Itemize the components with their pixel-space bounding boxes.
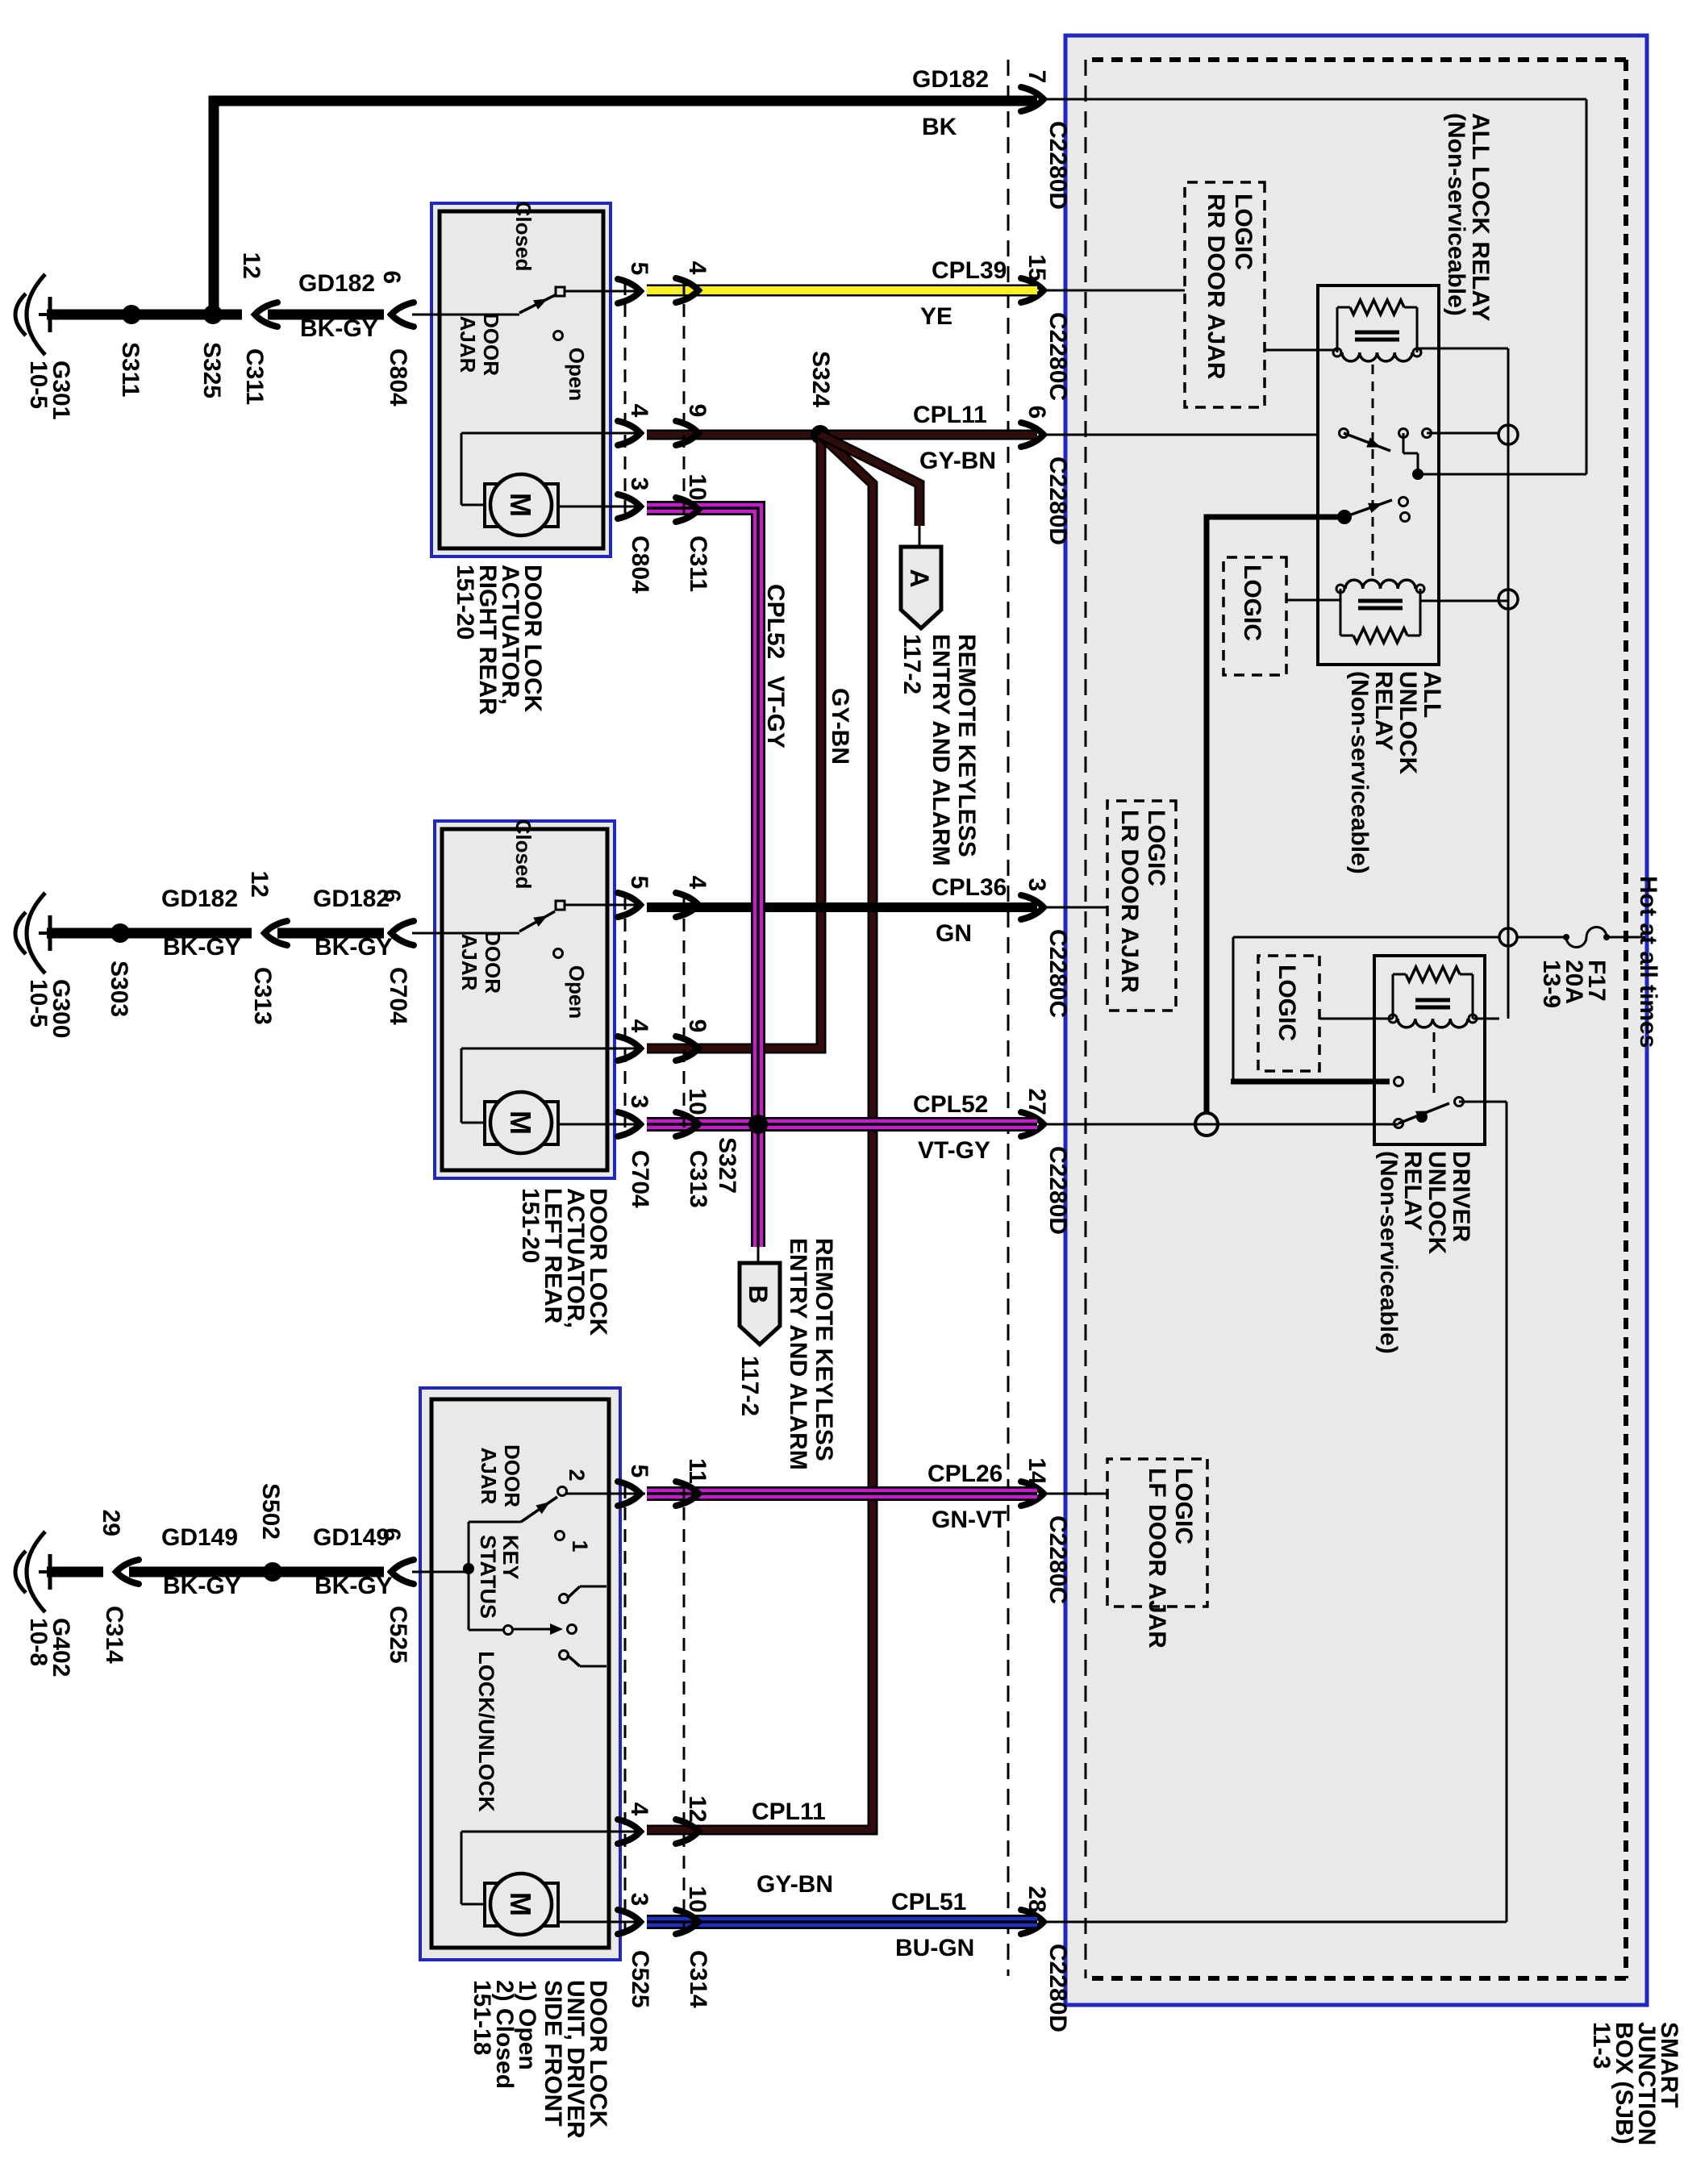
svg-text:11: 11 [684,1458,711,1484]
svg-text:M: M [504,493,537,517]
all lock relay coil [1416,307,1419,352]
svg-text:10-8: 10-8 [25,1618,52,1666]
svg-text:GY-BN: GY-BN [757,1871,833,1898]
door lock unit driver side front box [420,1388,620,1960]
pin 27 C2280D [1021,1112,1044,1136]
svg-text:10-5: 10-5 [25,979,52,1027]
svg-text:Open: Open [565,348,589,401]
pin 10 [676,1112,698,1136]
svg-text:7: 7 [1023,70,1050,84]
svg-text:CPL52: CPL52 [913,1091,988,1118]
splice S311 [122,305,141,324]
ground G300 [39,932,48,935]
ground G301 [39,313,48,316]
svg-text:GN-VT: GN-VT [932,1507,1007,1533]
connector dashed line C2280 [1007,60,1010,1976]
svg-text:KEY: KEY [498,1535,523,1580]
svg-text:C2280C: C2280C [1044,929,1071,1018]
svg-text:BK-GY: BK-GY [300,315,378,342]
wire relay output to GD182 [1418,473,1586,476]
connector dashed separators [624,282,627,521]
svg-text:3: 3 [1023,878,1050,892]
svg-text:151-20: 151-20 [452,565,478,640]
svg-text:CPL39: CPL39 [932,257,1007,284]
front motor M [539,1883,558,1926]
svg-text:AJAR: AJAR [456,316,480,373]
svg-text:S325: S325 [198,342,225,398]
connector C313 pin 12 [265,921,287,945]
svg-text:AJAR: AJAR [457,934,481,991]
logic box driver unlock [1258,956,1319,1071]
lock relay lower throw [1337,510,1352,524]
svg-text:6: 6 [378,270,405,284]
pin 3 [618,1910,640,1934]
svg-text:5: 5 [626,876,652,890]
svg-text:Open: Open [565,965,589,1019]
svg-text:(Non-serviceable): (Non-serviceable) [1375,1151,1402,1354]
svg-text:M: M [504,1111,537,1135]
svg-text:C704: C704 [385,967,411,1025]
splice S327 [748,1115,768,1134]
svg-text:9: 9 [684,404,711,418]
splice S324 [811,425,830,444]
wire S324 to LR [647,435,821,1048]
svg-text:C313: C313 [249,967,276,1025]
terminal circle lock [1499,425,1518,444]
svg-text:BK-GY: BK-GY [315,1573,393,1599]
wire S324 to flag A stub [820,435,919,526]
wire pin27 CPL52 interior [1044,1123,1398,1126]
ground G300 wire [277,928,384,939]
svg-text:4: 4 [684,876,711,890]
svg-text:C2280D: C2280D [1044,1146,1071,1235]
svg-text:2: 2 [565,1469,589,1481]
wire CPL51 BU-GN [647,1915,1037,1929]
smart junction box SJB [1065,35,1647,2005]
wire coil to RR logic box [1265,349,1337,352]
svg-text:A: A [905,569,934,587]
svg-text:LOGIC: LOGIC [1239,565,1265,641]
svg-text:BK: BK [922,114,957,140]
svg-text:10: 10 [684,473,711,500]
svg-text:DRIVER: DRIVER [1448,1151,1474,1243]
svg-text:LF DOOR AJAR: LF DOOR AJAR [1144,1468,1170,1648]
svg-text:C525: C525 [385,1606,411,1664]
svg-text:C525: C525 [627,1950,653,2008]
wire pin28 bus [1506,1102,1508,1922]
dashed actuation driver [1433,1032,1436,1097]
svg-text:5: 5 [626,262,652,276]
svg-text:3: 3 [626,1095,652,1109]
svg-text:BK-GY: BK-GY [163,934,241,961]
svg-text:14: 14 [1023,1457,1050,1485]
svg-text:C704: C704 [627,1150,653,1208]
pin 10 [676,498,698,522]
svg-text:REMOTE KEYLESS: REMOTE KEYLESS [811,1238,837,1461]
svg-text:3: 3 [626,1893,652,1907]
wire unlock coil to power bus [1420,600,1508,602]
key status common [469,1629,504,1632]
wire stub to flag B [751,1124,765,1247]
svg-text:DOOR: DOOR [479,313,503,376]
svg-text:LR DOOR AJAR: LR DOOR AJAR [1116,810,1143,994]
splice S502 [263,1562,282,1582]
front door ajar switch [412,1571,469,1573]
svg-text:GY-BN: GY-BN [827,688,853,765]
svg-text:GD182: GD182 [298,270,375,297]
svg-text:LOGIC: LOGIC [1170,1468,1197,1544]
pin 5 [618,893,640,917]
terminal circle CPL52 [1195,1113,1218,1136]
svg-text:RELAY: RELAY [1399,1151,1426,1231]
wire CPL52 to LR [647,1117,758,1132]
flag A [919,526,921,547]
wire CPL52 VT-GY [758,1117,1037,1132]
wire S324 to front door CPL11 [647,435,873,1830]
terminal circle unlock [1499,590,1518,609]
power bus [1507,348,1510,1019]
svg-text:BU-GN: BU-GN [895,1935,974,1961]
wire pin15 to RR logic [1044,290,1185,292]
svg-text:GD149: GD149 [313,1524,390,1551]
svg-text:S303: S303 [106,961,132,1017]
svg-text:GN: GN [936,920,972,947]
ground G402 wire [129,1567,384,1578]
splice S325 [203,305,223,324]
svg-text:S502: S502 [257,1483,284,1540]
wire CPL26 GN-VT [647,1486,1037,1501]
wire lower throw to driver relay feed circle [1207,517,1344,1113]
svg-text:DOOR: DOOR [500,1444,524,1507]
svg-text:CPL26: CPL26 [927,1461,1002,1487]
svg-text:C2280D: C2280D [1044,456,1071,545]
svg-text:ALL: ALL [1419,671,1445,718]
wire pin3 to LR logic [1044,907,1107,909]
svg-text:10: 10 [684,1886,711,1912]
wire CPL11 GY-BN main [647,430,1037,440]
svg-text:M: M [504,1892,537,1916]
pin 6 C2280D [1021,423,1044,447]
svg-text:YE: YE [920,303,952,330]
svg-text:Closed: Closed [511,819,536,890]
wire driver coil to logic [1319,1018,1393,1020]
pin 28 C2280D [1021,1910,1044,1934]
svg-text:28: 28 [1023,1886,1050,1912]
svg-text:GY-BN: GY-BN [919,448,996,474]
driver unlock feed [1232,937,1235,1082]
svg-text:151-20: 151-20 [517,1188,544,1263]
RR door ajar switch [412,314,519,316]
svg-text:117-2: 117-2 [736,1356,763,1416]
wire GD182 inside SJB pin7 [1044,98,1586,101]
logic LF door ajar box [1107,1459,1207,1607]
svg-text:Hot at all times: Hot at all times [1635,876,1661,1048]
connector C525 pin 6 [391,1560,414,1584]
svg-text:151-18: 151-18 [469,1980,495,2055]
svg-text:CPL36: CPL36 [932,874,1007,901]
svg-text:C311: C311 [685,536,711,592]
svg-text:15: 15 [1023,254,1050,281]
svg-text:VT-GY: VT-GY [918,1137,990,1164]
svg-text:S311: S311 [117,342,144,397]
svg-text:27: 27 [1023,1088,1050,1115]
pin 4 [618,421,640,445]
svg-text:6: 6 [1023,406,1050,419]
connector C311 pin 12 [255,302,277,327]
svg-text:UNLOCK: UNLOCK [1423,1151,1450,1255]
svg-text:5: 5 [626,1465,652,1478]
svg-text:29: 29 [98,1510,124,1536]
svg-text:C2280C: C2280C [1044,1515,1071,1604]
svg-text:13-9: 13-9 [1538,960,1565,1008]
connector dashed separators [624,897,627,1136]
svg-text:S324: S324 [807,351,834,407]
svg-text:BK-GY: BK-GY [315,934,393,961]
svg-text:ALL LOCK RELAY: ALL LOCK RELAY [1467,113,1494,321]
logic RR door ajar box [1185,182,1265,407]
wire coil to power bus [1417,348,1508,350]
svg-text:4: 4 [626,1019,652,1033]
svg-text:4: 4 [626,1803,652,1816]
svg-text:C804: C804 [385,348,411,406]
svg-text:LOGIC: LOGIC [1230,194,1257,270]
ground G301 wire [268,310,384,320]
driver unlock relay coil [1472,974,1474,1019]
wire GD182 BK [214,101,1037,315]
svg-text:LOGIC: LOGIC [1273,965,1300,1041]
wire CPL39 YE [647,285,1037,297]
svg-text:10: 10 [684,1088,711,1115]
connector C704 pin 6 [391,921,414,945]
lock relay contact [1340,429,1348,438]
connector dashed separators [624,1486,627,1936]
svg-text:6: 6 [378,1528,405,1541]
pin 9 [676,1036,698,1061]
svg-text:C311: C311 [241,348,268,405]
logic LR door ajar box [1107,801,1176,1011]
svg-text:6: 6 [378,889,405,902]
splice dot entry [463,1563,474,1574]
svg-text:CPL52: CPL52 [762,584,789,659]
splice S303 [110,923,130,943]
connector C314 pin 29 [116,1560,139,1584]
svg-text:GD182: GD182 [313,886,390,912]
svg-text:Closed: Closed [511,202,536,272]
svg-text:12: 12 [238,252,265,279]
flag B [757,1247,760,1263]
svg-text:11-3: 11-3 [1588,2022,1615,2069]
pin 7 C2280D [1021,87,1044,111]
svg-text:RR DOOR AJAR: RR DOOR AJAR [1203,194,1229,380]
pin 4 [676,278,698,302]
wire CPL52 from RR [647,508,758,1124]
pin 5 [618,279,640,303]
svg-text:(Non-serviceable): (Non-serviceable) [1443,113,1469,316]
LR motor M [539,1102,558,1144]
svg-text:C314: C314 [685,1950,711,2008]
svg-text:C2280C: C2280C [1044,312,1071,401]
driver unlock relay box [1374,956,1485,1144]
svg-text:SIDE FRONT: SIDE FRONT [540,1980,566,2127]
pin 14 C2280C [1021,1482,1044,1506]
door lock actuator left rear box [435,821,615,1178]
pin 12 [676,1819,698,1844]
svg-text:BK-GY: BK-GY [163,1573,241,1599]
svg-text:C2280D: C2280D [1044,121,1071,210]
SJB inner dashed border [1624,60,1628,1978]
svg-text:LOGIC: LOGIC [1143,810,1169,886]
driver unlock relay contact [1394,1119,1403,1128]
wire pin14 to LF logic [1044,1493,1107,1495]
svg-text:VT-GY: VT-GY [762,676,789,748]
connector C804 pin 6 [391,302,414,327]
svg-text:3: 3 [626,477,652,491]
svg-text:LOCK/UNLOCK: LOCK/UNLOCK [474,1651,498,1812]
pin 3 C2280C [1021,895,1044,919]
pin 4 [618,1036,640,1061]
svg-text:10-5: 10-5 [25,361,52,409]
pin 11 [676,1482,698,1506]
svg-text:STATUS: STATUS [476,1535,500,1619]
ground G402 [39,1570,48,1573]
svg-text:C2280D: C2280D [1044,1944,1071,2032]
svg-text:S327: S327 [714,1137,740,1194]
svg-text:RELAY: RELAY [1370,671,1397,751]
svg-text:ENTRY AND ALARM: ENTRY AND ALARM [927,634,954,866]
svg-text:12: 12 [684,1795,711,1822]
svg-text:B: B [744,1285,773,1303]
pin 5 [618,1482,640,1506]
logic box all unlock [1223,557,1286,675]
svg-text:117-2: 117-2 [898,634,925,694]
door lock actuator right rear box [431,203,611,556]
wire unlock coil to logic [1286,599,1340,602]
pin 9 [676,421,698,445]
svg-text:UNLOCK: UNLOCK [1394,671,1421,775]
svg-text:4: 4 [684,261,711,275]
all lock/unlock relay box [1318,286,1439,665]
svg-text:CPL11: CPL11 [752,1798,826,1825]
svg-text:C804: C804 [627,536,653,594]
pin 3 [618,1112,640,1136]
lock/unlock switch [560,1594,569,1603]
wire driver coil to bus [1473,1018,1499,1020]
pin 4 [676,893,698,917]
fuse F17 [1607,936,1645,939]
wire CPL36 GN [647,902,1037,912]
svg-text:GD149: GD149 [161,1524,238,1551]
svg-text:AJAR: AJAR [477,1448,501,1505]
pin 10 [676,1910,698,1934]
svg-text:C313: C313 [685,1150,711,1208]
wire pin6 CPL11 to relay [1044,434,1318,436]
svg-text:GD182: GD182 [912,66,989,93]
pin 15 C2280C [1021,278,1044,302]
svg-text:12: 12 [246,871,273,898]
svg-text:ENTRY AND ALARM: ENTRY AND ALARM [785,1238,811,1470]
svg-text:CPL51: CPL51 [891,1889,966,1915]
all unlock relay coil [1419,589,1422,636]
svg-text:DOOR: DOOR [481,931,505,994]
svg-text:REMOTE KEYLESS: REMOTE KEYLESS [953,634,980,857]
svg-text:4: 4 [626,404,652,418]
svg-text:GD182: GD182 [161,886,238,912]
svg-text:(Non-serviceable): (Non-serviceable) [1346,671,1373,874]
LR door ajar switch [412,932,519,935]
svg-text:C314: C314 [101,1606,127,1664]
pin 4 [618,1819,640,1844]
RR motor M [539,484,558,527]
svg-text:1: 1 [568,1540,592,1552]
svg-text:9: 9 [684,1019,711,1033]
svg-text:CPL11: CPL11 [913,402,987,428]
pin 3 [618,494,640,519]
junction node circled [1499,928,1517,946]
